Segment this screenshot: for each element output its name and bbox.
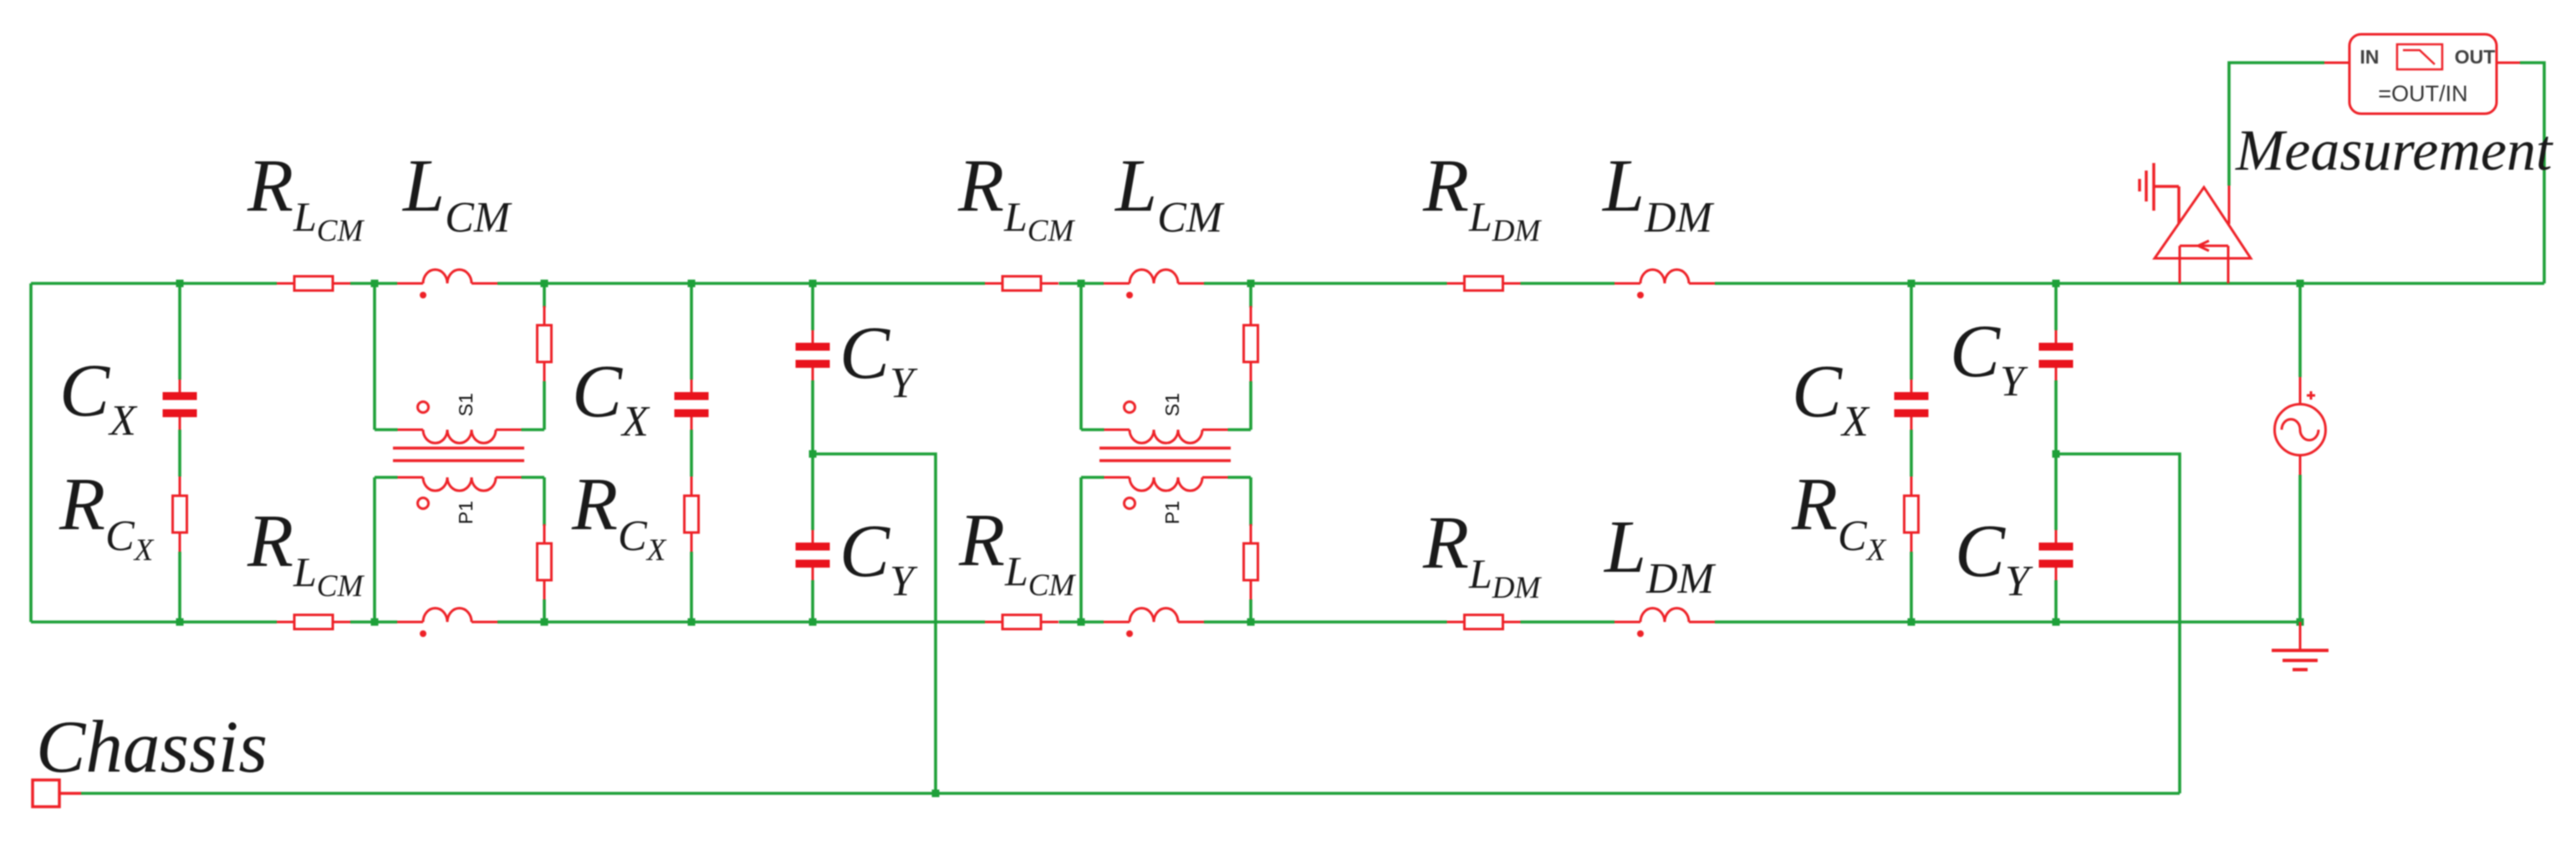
- svg-text:RLCM: RLCM: [247, 500, 365, 604]
- svg-text:LCM: LCM: [1114, 145, 1225, 242]
- svg-text:CY: CY: [1955, 510, 2033, 605]
- svg-text:LDM: LDM: [1603, 506, 1716, 603]
- svg-text:Measurement: Measurement: [2235, 119, 2553, 183]
- svg-text:CX: CX: [572, 350, 650, 446]
- svg-text:RLCM: RLCM: [958, 499, 1076, 603]
- svg-text:RLCM: RLCM: [957, 145, 1075, 248]
- svg-text:RCX: RCX: [59, 463, 155, 568]
- svg-text:RCX: RCX: [571, 463, 667, 568]
- svg-text:CY: CY: [839, 510, 918, 605]
- svg-text:CY: CY: [839, 312, 918, 407]
- svg-text:CY: CY: [1950, 310, 2028, 405]
- svg-text:=OUT/IN: =OUT/IN: [2378, 81, 2467, 106]
- svg-text:IN: IN: [2360, 46, 2380, 68]
- svg-text:Chassis: Chassis: [36, 706, 268, 788]
- svg-text:OUT: OUT: [2455, 46, 2496, 68]
- svg-text:LCM: LCM: [401, 145, 513, 242]
- svg-text:LDM: LDM: [1601, 145, 1715, 242]
- svg-text:RLCM: RLCM: [247, 145, 365, 248]
- svg-text:RLDM: RLDM: [1422, 502, 1543, 605]
- svg-text:RLDM: RLDM: [1422, 145, 1543, 248]
- svg-text:CX: CX: [1792, 350, 1870, 446]
- svg-text:RCX: RCX: [1791, 463, 1887, 568]
- svg-text:CX: CX: [59, 349, 138, 445]
